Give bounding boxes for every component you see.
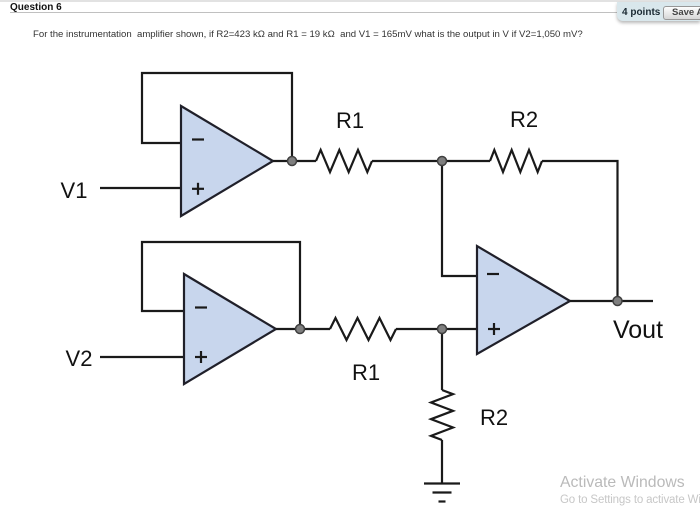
node B: R1/R2 junction (bottom) [438, 325, 447, 334]
svg-text:R1: R1 [336, 108, 364, 133]
op-amp U2 [184, 274, 276, 384]
ground [424, 484, 460, 502]
wire node A to U3 inverting input [442, 161, 477, 276]
resistor R1 (bottom) [330, 318, 396, 340]
node: U1 output junction [288, 157, 297, 166]
node A: R1/R2 junction (top) [438, 157, 447, 166]
wire V1 input [100, 187, 181, 189]
node: Vout junction [613, 297, 622, 306]
wire U1 output [273, 160, 316, 162]
wire R2 to output node [542, 161, 618, 301]
wire node B to R2 (bottom) [441, 329, 443, 390]
svg-text:V1: V1 [61, 178, 88, 203]
wire U2 feedback loop [142, 242, 300, 329]
node: U2 output junction [296, 325, 305, 334]
svg-text:Vout: Vout [613, 316, 663, 344]
wire U1 feedback loop [142, 73, 292, 161]
svg-text:R2: R2 [480, 405, 508, 430]
wire V2 input [100, 356, 184, 358]
resistor R2 (top) [490, 150, 542, 172]
op-amp U3 [477, 246, 570, 354]
svg-text:R1: R1 [352, 360, 380, 385]
wire U3 output [570, 300, 653, 302]
svg-text:V2: V2 [66, 346, 93, 371]
wire R1 to node B and U3 non-inverting input [396, 328, 477, 330]
op-amp U1 [181, 106, 273, 216]
resistor R1 (top) [316, 150, 372, 172]
svg-text:R2: R2 [510, 107, 538, 132]
wire U2 output [276, 328, 330, 330]
wire R2 to ground [441, 440, 443, 484]
resistor R2 (bottom, to ground) [431, 390, 453, 440]
wire R1 to node A [372, 160, 490, 162]
